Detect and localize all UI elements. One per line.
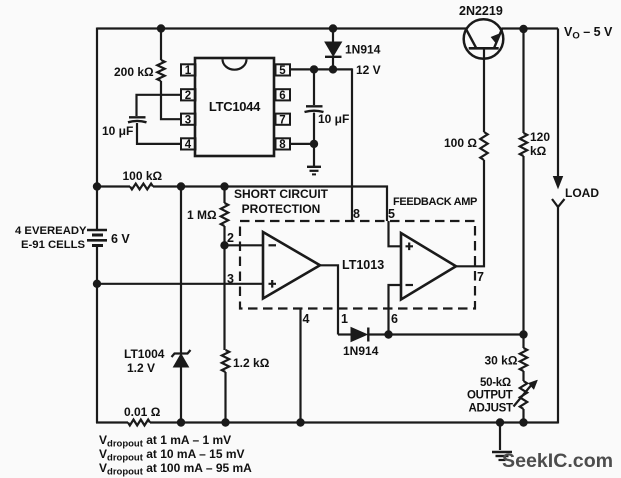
battery BT1 4 cells 6 V <box>87 230 107 246</box>
arrowhead emitter Q1 <box>491 34 500 43</box>
wire U2b inverting input down to feedback node <box>389 285 402 335</box>
wire capacitor C2 bottom to pin 8 node <box>313 113 315 166</box>
svg-text:LT1004: LT1004 <box>124 347 165 361</box>
svg-text:12 V: 12 V <box>356 63 381 77</box>
resistor R1 200 kOhm <box>157 60 164 81</box>
svg-text:0.01 Ω: 0.01 Ω <box>124 405 161 419</box>
IC U1 LTC1044 body <box>195 58 274 156</box>
resistor R4 1.2 kOhm <box>222 350 229 372</box>
wire 1.2k bottom to rail <box>224 372 226 423</box>
load connector Y <box>552 199 565 207</box>
svg-text:1: 1 <box>341 312 348 326</box>
junction node C2 bottom pin 8 <box>310 140 318 148</box>
wire 12V corner down to LT1013 pin 8 <box>351 68 353 221</box>
pin box 3 LTC1044 <box>181 114 196 125</box>
IC U1 notch <box>223 59 247 70</box>
junction node 1M 100k <box>220 182 228 190</box>
wire pin 2 node to op-amp inverting input <box>225 244 264 246</box>
wire pin 5 into U2b non-inverting input <box>389 221 402 246</box>
svg-text:4 EVEREADY: 4 EVEREADY <box>15 225 87 237</box>
label SHORT CIRCUIT PROTECTION <box>234 187 329 216</box>
wire 30k to potentiometer <box>522 371 524 381</box>
wire potentiometer bottom to rail <box>522 409 524 423</box>
resistor R7 0.01 ohm shunt <box>128 420 150 426</box>
svg-text:1N914: 1N914 <box>343 344 379 358</box>
svg-text:200 kΩ: 200 kΩ <box>114 65 154 79</box>
wire diode D3 cathode to feedback node <box>368 333 523 335</box>
ground symbol near C2 <box>307 167 321 175</box>
svg-text:4: 4 <box>303 312 310 326</box>
wire bottom rail left of shunt resistor <box>96 421 128 423</box>
diode D3 1N914 <box>351 328 367 342</box>
svg-text:1N914: 1N914 <box>345 43 381 57</box>
diode D2 LT1004 1.2V reference <box>174 354 189 367</box>
resistor R5 100 Ohm <box>480 132 487 160</box>
svg-text:3: 3 <box>227 272 234 286</box>
svg-text:1: 1 <box>185 65 192 77</box>
wire output arrow to LOAD <box>557 29 559 179</box>
junction node 1.2k bottom rail <box>221 418 229 426</box>
wiper arrow potentiometer <box>514 383 534 407</box>
diode D1 1N914 <box>325 42 342 56</box>
wire U2a output down to diode D3 <box>320 265 338 334</box>
junction node pin 4 bottom rail <box>296 418 304 426</box>
wire left rail upper (battery plus) <box>96 28 98 231</box>
plus sign U2b <box>406 243 414 251</box>
svg-text:1.2 V: 1.2 V <box>127 361 155 375</box>
wire capacitor C1 bottom to LTC1044 pin 4 <box>137 123 181 144</box>
svg-text:E-91 CELLS: E-91 CELLS <box>21 239 85 251</box>
junction node battery plus 100k <box>93 182 101 190</box>
minus sign U2b <box>406 284 414 286</box>
arrowhead LOAD arrow <box>554 177 563 189</box>
svg-text:5: 5 <box>388 207 395 221</box>
wire diode D1 cathode to 12V node <box>332 57 334 70</box>
svg-text:120: 120 <box>530 130 550 144</box>
label 120 kOhm <box>530 130 550 158</box>
svg-text:1 MΩ: 1 MΩ <box>187 208 217 222</box>
svg-text:6: 6 <box>279 90 285 102</box>
wire capacitor C2 top <box>313 69 315 105</box>
wire 1M bottom to pin2 node <box>223 226 225 245</box>
junction node feedback 120k <box>519 330 527 338</box>
junction node LT1004 bottom rail <box>177 418 185 426</box>
svg-text:PROTECTION: PROTECTION <box>242 202 321 216</box>
wire diode D3 anode <box>338 333 351 335</box>
label LT1004 1.2 V <box>124 347 165 375</box>
svg-text:8: 8 <box>353 207 360 221</box>
svg-text:LOAD: LOAD <box>565 186 599 200</box>
svg-text:5: 5 <box>279 65 286 77</box>
capacitor C1 10 uF <box>128 117 147 122</box>
wire 120k bottom to feedback node <box>522 156 524 335</box>
wire LT1004 branch top <box>180 187 182 354</box>
minus sign U2a <box>269 244 277 246</box>
junction node C2 top <box>310 65 318 73</box>
svg-text:8: 8 <box>279 139 286 151</box>
op-amp U2a triangle <box>263 232 320 299</box>
svg-text:30 kΩ: 30 kΩ <box>485 354 518 368</box>
plus sign U2a <box>269 280 277 288</box>
junction node potentiometer bottom rail <box>519 418 527 426</box>
resistor R3 1 MOhm <box>221 203 228 226</box>
resistor R8 30 kOhm <box>520 348 527 371</box>
wire top rail transistor emitter to output corner <box>502 27 559 29</box>
pin box 8 LTC1044 <box>276 138 291 149</box>
svg-text:100 kΩ: 100 kΩ <box>123 169 163 183</box>
svg-text:SeekIC.com: SeekIC.com <box>502 450 613 472</box>
junction node pin 2 input <box>220 241 228 249</box>
wire 100 Ohm to transistor base <box>483 48 485 132</box>
label 4 EVEREADY E-91 CELLS <box>15 225 87 251</box>
wire battery minus to op-amp non-inverting input <box>97 283 263 285</box>
label 50-kOhm OUTPUT ADJUST <box>467 377 513 415</box>
wire LTC1044 pin 5 to 12V corner <box>290 68 352 70</box>
wire ground stub bottom <box>499 423 501 450</box>
potentiometer R9 50 kOhm output adjust <box>520 381 527 409</box>
wire LTC1044 pin 8 to ground <box>290 143 314 145</box>
junction node 12V <box>329 65 337 73</box>
junction node 200k top rail <box>157 24 165 32</box>
svg-text:FEEDBACK AMP: FEEDBACK AMP <box>393 196 477 208</box>
wire bottom rail right of shunt resistor <box>150 421 558 423</box>
svg-text:4: 4 <box>185 139 192 151</box>
wire U2b output to transistor base <box>456 160 484 266</box>
wire LT1013 pin 4 to bottom rail <box>299 309 301 423</box>
junction node output VO <box>519 25 527 33</box>
wire feedback node down to 30k <box>522 335 524 349</box>
svg-text:2: 2 <box>185 90 191 102</box>
svg-text:SHORT CIRCUIT: SHORT CIRCUIT <box>234 187 329 201</box>
wire diode D1 top from rail <box>332 29 334 43</box>
svg-text:kΩ: kΩ <box>530 144 547 158</box>
junction node diode D3 cathode pin 6 <box>384 330 392 338</box>
wire pin2 node down to 1.2k <box>223 245 225 350</box>
junction node diode D1 top rail <box>329 24 337 32</box>
pin box 5 LTC1044 <box>276 64 291 75</box>
wire top rail from battery plus to transistor collector <box>97 27 466 29</box>
svg-text:3: 3 <box>185 114 191 126</box>
svg-text:LT1013: LT1013 <box>342 258 384 272</box>
wire 1M branch top <box>223 187 225 204</box>
wire 100k node rail <box>97 187 387 222</box>
svg-text:1.2 kΩ: 1.2 kΩ <box>233 356 270 370</box>
svg-text:OUTPUT: OUTPUT <box>467 390 513 402</box>
wire 200k bottom to LTC1044 pin 3 <box>161 81 181 119</box>
transistor Q1 2N2219 <box>464 19 504 59</box>
wire LTC1044 pin 2 to capacitor C1 top <box>137 95 182 116</box>
junction node LT1004 100k <box>177 182 185 190</box>
wire 200k top from rail <box>160 29 162 61</box>
pin box 1 LTC1044 <box>181 64 196 75</box>
svg-text:2: 2 <box>227 231 234 245</box>
dashed box LT1013 <box>240 221 475 309</box>
svg-text:50-kΩ: 50-kΩ <box>480 377 511 389</box>
wire LT1004 anode to rail <box>180 367 182 423</box>
wire 120k top <box>522 29 524 134</box>
svg-text:100 Ω: 100 Ω <box>444 136 477 150</box>
junction node battery minus <box>93 280 101 288</box>
svg-text:LTC1044: LTC1044 <box>209 99 261 114</box>
svg-text:6: 6 <box>391 312 398 326</box>
wire right rail from load connector to bottom rail corner <box>557 207 559 424</box>
svg-text:7: 7 <box>279 114 285 126</box>
pin box 4 LTC1044 <box>181 138 196 149</box>
svg-text:10 μF: 10 μF <box>102 124 133 138</box>
svg-text:ADJUST: ADJUST <box>469 403 513 415</box>
resistor R6 120 kOhm <box>520 133 527 156</box>
svg-text:10 μF: 10 μF <box>318 112 349 126</box>
svg-text:2N2219: 2N2219 <box>459 4 503 18</box>
pin box 7 LTC1044 <box>276 114 291 125</box>
svg-text:6 V: 6 V <box>111 232 130 246</box>
wire left rail lower (battery minus) <box>96 246 98 424</box>
pin box 6 LTC1044 <box>276 89 291 100</box>
op-amp U2b triangle <box>401 233 456 300</box>
resistor R2 100 kOhm <box>130 184 153 190</box>
pin box 2 LTC1044 <box>181 89 196 100</box>
svg-text:7: 7 <box>477 270 484 284</box>
ground symbol bottom <box>492 452 512 460</box>
junction node ground stub rail <box>496 418 504 426</box>
capacitor C2 10 uF <box>305 106 324 112</box>
